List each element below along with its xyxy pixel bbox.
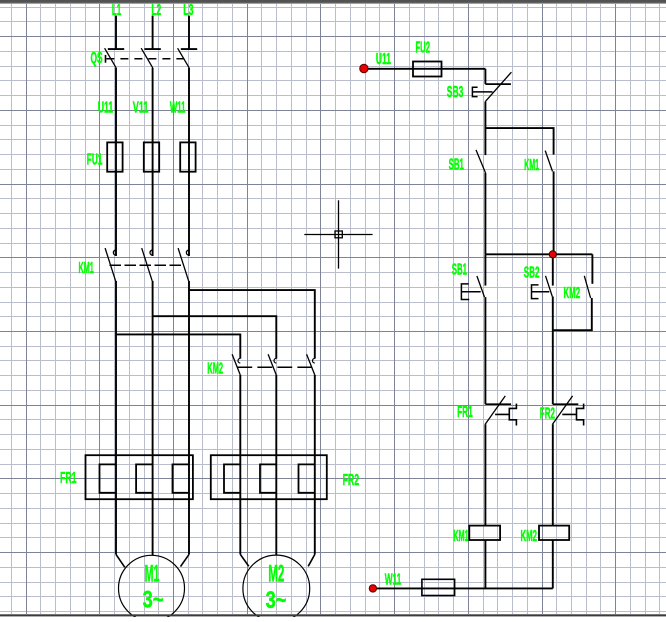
wire SB2 to FR2 contact — [552, 297, 554, 405]
contact FR1 blade — [485, 396, 505, 424]
svg-text:SB1: SB1 — [449, 156, 464, 173]
wire KM2 aux rejoin — [553, 298, 592, 330]
pushbutton SB2 actuator — [532, 285, 550, 299]
contact FR2 heater element — [562, 404, 583, 426]
svg-text:FR1: FR1 — [457, 404, 473, 421]
wire tap phase 3 to KM2 — [189, 290, 315, 359]
contactor KM2 pole 1 contact blade — [232, 354, 240, 375]
node junction dot control — [549, 251, 556, 258]
thermal relay FR1 heater 2 — [136, 464, 153, 492]
fuse FU1 pole 3 body — [180, 142, 195, 171]
wire SB3 to SB1 — [484, 102, 486, 156]
svg-text:U11: U11 — [376, 51, 391, 68]
motor M1 body — [119, 555, 185, 621]
svg-text:FU1: FU1 — [87, 151, 103, 168]
motor M2 body — [243, 555, 310, 622]
coil KM2 body — [539, 526, 569, 540]
fuse FU1 pole 2 body — [144, 142, 159, 171]
wire FR2 contact to KM2 coil — [552, 424, 554, 525]
svg-text:FR2: FR2 — [343, 472, 360, 489]
switch QS pole 2 blade — [141, 48, 153, 68]
thermal relay FR2 heater 1 — [224, 464, 240, 492]
svg-text:KM2: KM2 — [207, 360, 223, 377]
contactor KM2 pole 2 contact blade — [268, 354, 276, 375]
motor M1 lead right — [181, 554, 190, 566]
bottom window edge — [0, 614, 666, 616]
control wire from U11 node — [364, 68, 486, 70]
feeder L2 wire — [152, 16, 154, 50]
switch QS pole 2 bar — [144, 48, 160, 50]
pushbutton SB3 actuator — [472, 87, 492, 96]
feeder L3 wire — [188, 16, 190, 50]
svg-text:KM2: KM2 — [521, 528, 538, 545]
thermal relay FR2 heater 2 — [260, 464, 276, 492]
wire SB1 stop to FR1 contact — [484, 297, 486, 404]
svg-text:SB1: SB1 — [452, 261, 467, 278]
pushbutton SB1 start blade — [476, 150, 486, 173]
svg-text:KM2: KM2 — [564, 285, 581, 302]
svg-text:SB2: SB2 — [524, 265, 540, 282]
fuse FU3 body — [422, 579, 455, 595]
motor M2 lead left — [240, 554, 249, 566]
thermal relay FR1 heater 1 — [100, 464, 117, 492]
svg-text:V11: V11 — [133, 100, 149, 117]
contactor KM1 pole 1 contact arc — [113, 250, 116, 255]
wire SB1 down to junction — [484, 173, 486, 254]
contactor KM2 linkage dashed — [237, 366, 311, 368]
thermal relay FR2 heater 3 — [299, 464, 315, 492]
svg-text:M1: M1 — [145, 561, 160, 588]
pushbutton SB3 blade — [485, 72, 511, 101]
wire KM1 aux to junction — [553, 171, 555, 254]
wire junction to SB2 — [552, 254, 554, 285]
wire branch to KM1 aux — [485, 128, 553, 155]
wire bottom return — [373, 587, 553, 589]
pushbutton SB2 blade — [546, 276, 553, 297]
thermal relay FR1 body — [86, 455, 193, 499]
wire phase 3 KM1 to M1 — [188, 281, 190, 555]
contactor KM1 pole 1 contact blade — [105, 248, 116, 281]
wire phase 2 KM1 to M1 — [152, 281, 154, 555]
wire tap phase 2 to KM2 — [153, 316, 277, 358]
svg-text:QS: QS — [91, 50, 103, 67]
contactor KM2 pole 1 contact arc — [238, 358, 240, 363]
node U11 junction dot — [360, 64, 368, 72]
fuse FU1 pole 1 body — [107, 142, 122, 171]
thermal relay FR2 body — [211, 455, 327, 499]
cursor crosshair — [304, 200, 372, 268]
svg-text:3~: 3~ — [143, 587, 164, 614]
contactor KM1 pole 2 contact arc — [150, 250, 153, 255]
contactor KM1 pole 3 contact arc — [186, 250, 189, 255]
wire junction to SB1 stop — [484, 254, 486, 285]
switch QS pole 3 bar — [181, 48, 197, 50]
pushbutton SB1 stop actuator — [461, 284, 480, 300]
svg-text:KM1: KM1 — [79, 260, 94, 277]
contact FR2 blade — [553, 396, 573, 424]
pushbutton SB1 stop blade — [477, 276, 485, 297]
wire KM1 coil to bottom — [484, 540, 486, 588]
svg-text:FR2: FR2 — [540, 406, 555, 423]
switch QS pole 1 bar — [108, 48, 124, 50]
wire phase 3 QS to KM1 — [188, 68, 190, 256]
wire KM2 pole2 to FR2 — [275, 375, 277, 555]
switch QS pole 3 blade — [178, 48, 190, 68]
wire KM2 pole3 to FR2 — [314, 375, 316, 555]
wire FR1 contact to KM1 coil — [484, 424, 486, 525]
thermal relay FR1 heater 3 — [173, 464, 190, 492]
wire phase 2 QS to KM1 — [152, 68, 154, 256]
wire tap phase 1 to KM2 — [116, 334, 240, 358]
wire junction bar — [485, 253, 592, 255]
svg-text:KM1: KM1 — [453, 528, 469, 545]
contactor KM2 pole 2 contact arc — [274, 358, 276, 363]
pushbutton SB3 bar — [485, 83, 511, 85]
svg-text:U11: U11 — [98, 100, 114, 117]
contactor KM1 pole 2 contact blade — [142, 248, 153, 281]
wire phase 1 KM1 to M1 — [115, 281, 117, 555]
wire FU2 to SB3 — [484, 69, 486, 84]
svg-text:M2: M2 — [268, 561, 284, 588]
feeder L1 wire — [115, 16, 117, 50]
contact KM2 aux blade — [584, 276, 590, 298]
contactor KM2 pole 3 contact blade — [307, 354, 315, 375]
wire KM2 pole1 to FR2 — [239, 375, 241, 555]
coil KM1 body — [469, 526, 500, 540]
svg-text:FR1: FR1 — [60, 470, 77, 487]
motor M2 lead right — [308, 554, 315, 566]
svg-text:3~: 3~ — [266, 587, 287, 614]
svg-text:W11: W11 — [170, 100, 186, 117]
contact KM1 aux blade — [545, 151, 552, 172]
contact FR2 bar — [553, 403, 579, 405]
motor M1 lead left — [116, 554, 125, 567]
contactor KM2 pole 3 contact arc — [313, 358, 315, 363]
svg-text:SB3: SB3 — [447, 84, 464, 101]
top toolbar edge — [0, 0, 666, 2]
switch QS linkage dashed — [106, 58, 190, 60]
contact FR1 heater element — [495, 404, 516, 426]
svg-text:KM1: KM1 — [524, 157, 539, 174]
switch QS handle tick — [105, 55, 107, 63]
wire phase 1 QS to KM1 — [115, 68, 117, 256]
node W11 junction dot — [369, 585, 376, 592]
contactor KM1 pole 3 contact blade — [178, 248, 189, 281]
switch QS pole 1 blade — [105, 48, 117, 68]
wire KM2 coil to bottom — [552, 540, 554, 588]
svg-text:FU2: FU2 — [416, 40, 431, 57]
contact FR1 bar — [485, 403, 511, 405]
contactor KM1 linkage dashed — [110, 264, 184, 266]
svg-text:W11: W11 — [385, 572, 402, 589]
fuse FU2 body — [413, 62, 442, 77]
wire junction to KM2 aux — [591, 254, 593, 283]
